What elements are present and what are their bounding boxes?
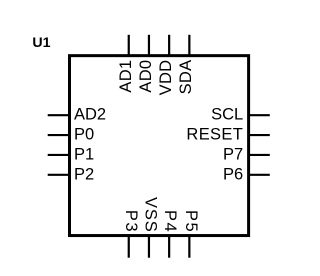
svg-text:P2: P2 bbox=[74, 165, 94, 183]
wire: top pin lead AD0 bbox=[148, 35, 150, 56]
wire: left pin lead P0 bbox=[48, 134, 70, 136]
wire: bottom pin lead P3 bbox=[128, 236, 130, 258]
svg-text:VDD: VDD bbox=[157, 60, 175, 96]
wire: top pin lead VDD bbox=[168, 35, 170, 56]
wire: bottom pin lead P4 bbox=[168, 236, 170, 258]
svg-text:P7: P7 bbox=[223, 145, 243, 163]
wire: top pin lead SDA bbox=[188, 35, 190, 56]
svg-text:AD2: AD2 bbox=[74, 106, 106, 124]
svg-text:U1: U1 bbox=[32, 35, 50, 51]
svg-text:VSS: VSS bbox=[141, 197, 159, 233]
wire: bottom pin lead VSS bbox=[148, 236, 150, 258]
wire: right pin lead RESET bbox=[249, 134, 270, 136]
wire: right pin lead SCL bbox=[249, 114, 270, 116]
wire: bottom pin lead P5 bbox=[188, 236, 190, 258]
svg-text:P5: P5 bbox=[182, 210, 200, 233]
svg-text:RESET: RESET bbox=[186, 126, 243, 144]
wire: right pin lead P6 bbox=[249, 174, 270, 176]
wire: left pin lead P2 bbox=[48, 174, 70, 176]
svg-text:P1: P1 bbox=[74, 145, 94, 163]
wire: left pin lead P1 bbox=[48, 154, 70, 156]
wire: right pin lead P7 bbox=[249, 154, 270, 156]
svg-text:P6: P6 bbox=[223, 165, 243, 183]
wire: top pin lead AD1 bbox=[128, 35, 130, 56]
svg-text:P3: P3 bbox=[122, 210, 140, 233]
IC U1 body bbox=[70, 56, 249, 236]
svg-text:AD0: AD0 bbox=[137, 60, 155, 93]
wire: left pin lead AD2 bbox=[48, 114, 70, 116]
svg-text:SCL: SCL bbox=[211, 106, 243, 124]
svg-text:AD1: AD1 bbox=[117, 60, 135, 93]
svg-text:P0: P0 bbox=[74, 126, 94, 144]
svg-text:P4: P4 bbox=[161, 210, 179, 233]
svg-text:SDA: SDA bbox=[177, 60, 195, 95]
